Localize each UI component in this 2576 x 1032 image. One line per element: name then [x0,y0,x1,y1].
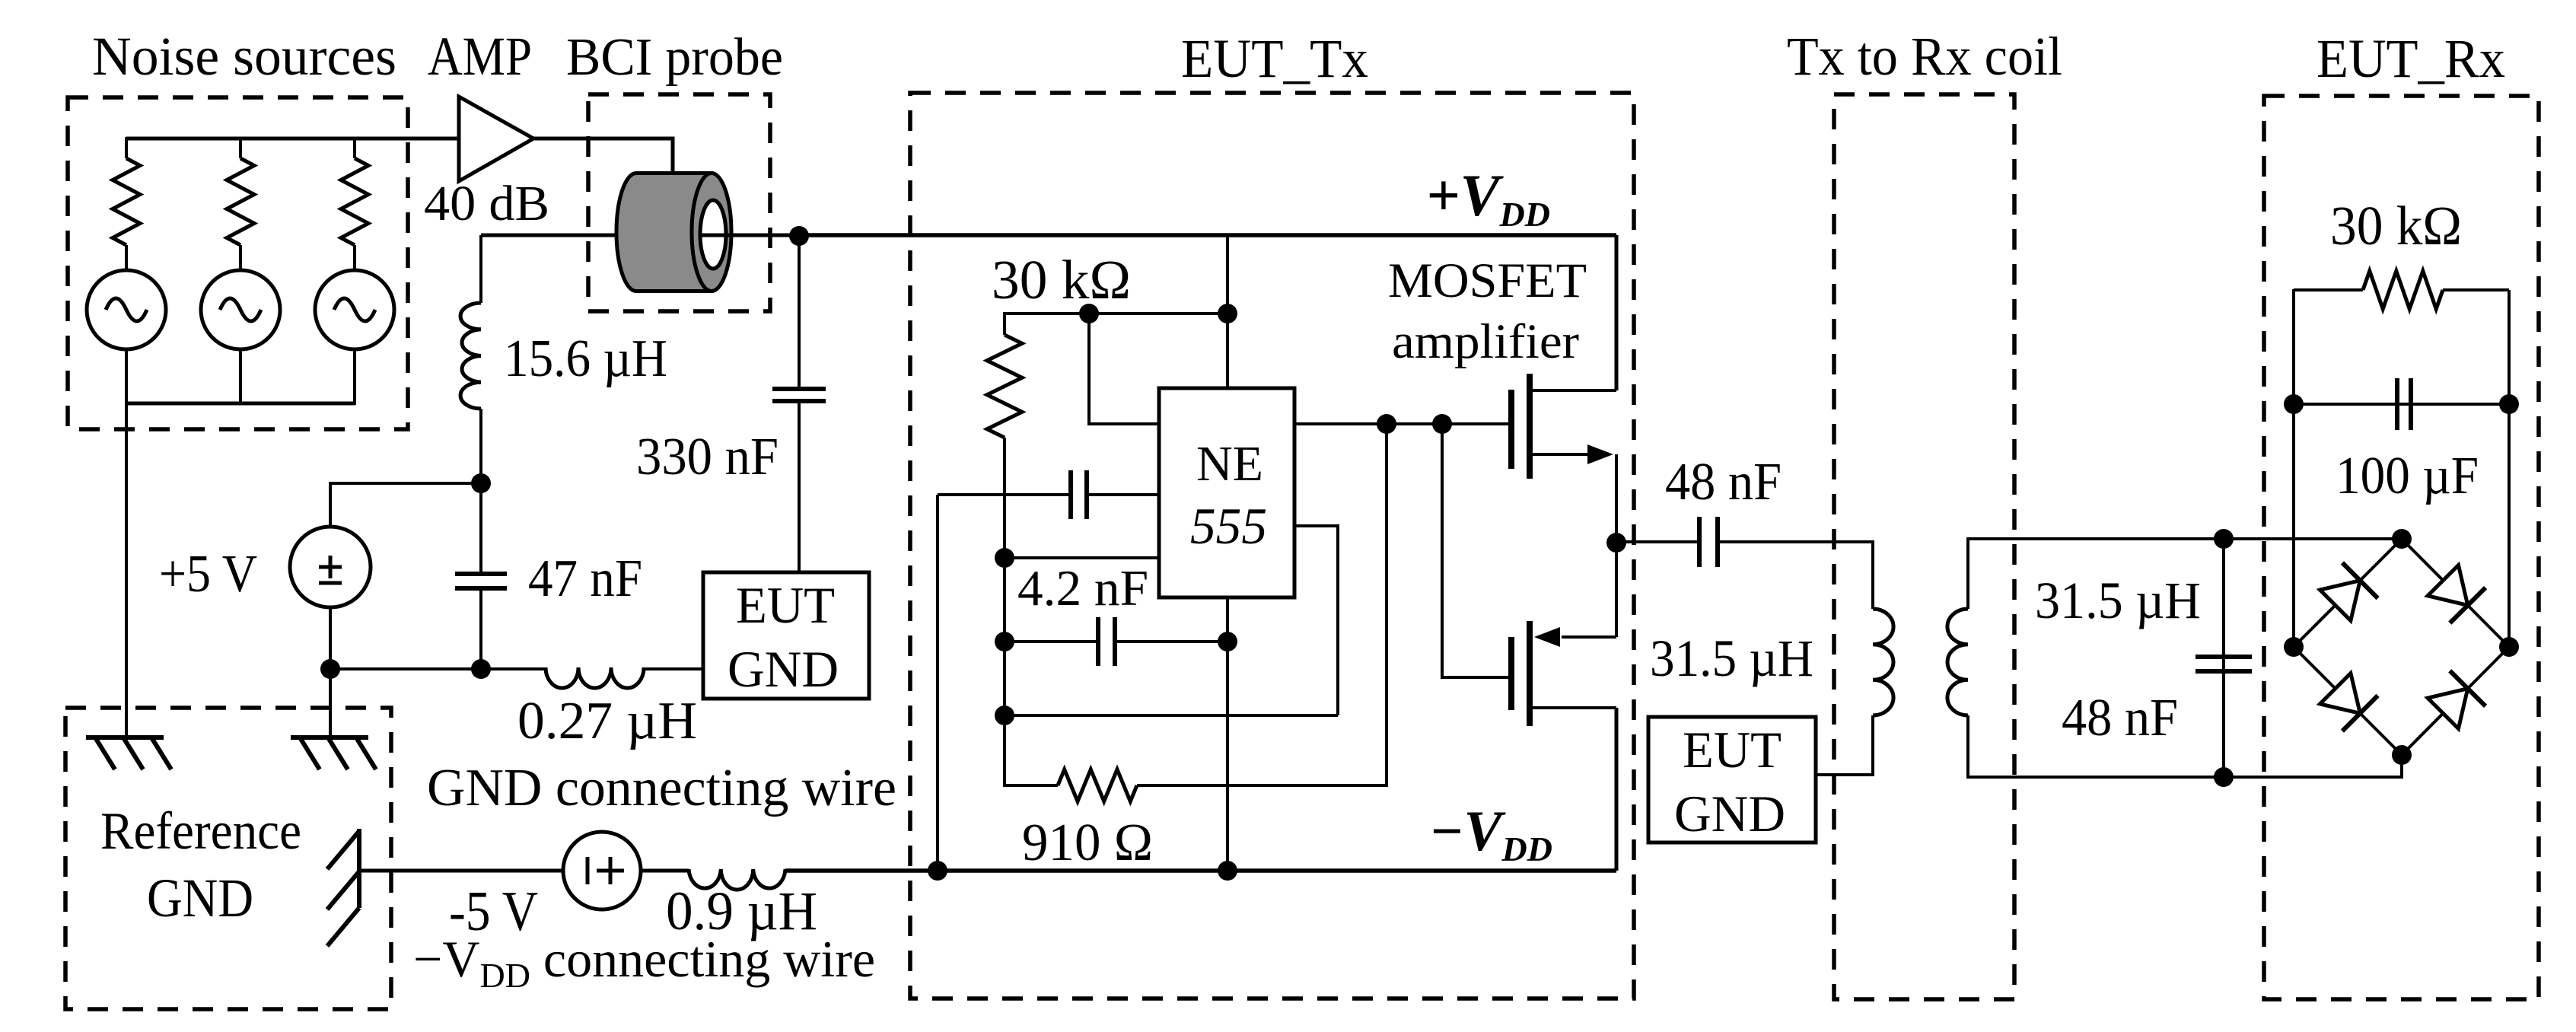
node dot bridge top [2392,529,2412,549]
capacitor 48 nF (Rx) [2195,657,2252,671]
svg-text:31.5 µH: 31.5 µH [1650,629,1813,687]
capacitor 4.2 nF [1098,617,1115,666]
resistor 30 kOhm (Tx) [987,335,1022,438]
resistor noise R3 [341,158,368,245]
node dot 4.2nF right [1218,632,1237,651]
svg-text:15.6 µH: 15.6 µH [504,330,667,388]
label 47 nF [528,549,642,608]
BCI probe toroid [616,174,731,291]
label GND (reference) [147,868,253,928]
wire E-G vertical [1003,558,1006,715]
label 40 dB [424,176,549,231]
wire 30k bottom to node E [1003,438,1006,558]
wire rail corner to Q1 drain [1615,235,1619,390]
wire resistor to source V1 [125,245,128,271]
wire -5V to 0.9uH [641,869,689,873]
dashed box: BCI probe [588,94,770,311]
svg-text:Noise sources: Noise sources [92,26,396,87]
box EUT GND (Tx side) [703,572,869,699]
svg-text:+5 V: +5 V [159,545,257,604]
wire Tx coil to EUT GND box2 [1816,715,1873,775]
diode D3 (left-bottom) [2320,674,2378,731]
node dot NE555 bottom rail [1218,861,1237,881]
label: Tx to Rx coil [1787,26,2062,87]
wire Rx coil top [1968,539,2402,609]
resistor 910 Ohm [1058,769,1137,801]
svg-text:30 kΩ: 30 kΩ [992,249,1131,311]
wire bridge edge L-B [2294,647,2402,755]
dashed box: Noise sources [68,97,408,429]
node dot Rx top [2214,529,2234,549]
wire stub branch 2 [239,137,242,158]
wire resistor to source V3 [353,245,356,271]
label -VDD connecting wire [413,930,875,995]
label Reference [100,802,301,861]
ground fence (reference GND) [327,829,359,946]
svg-text:48 nF: 48 nF [2062,689,2178,747]
svg-text:AMP: AMP [428,26,532,87]
wire 15.6uH to node B [479,409,482,483]
voltage source -5 V [563,832,641,909]
label 330 nF [636,428,779,486]
ground G2 (+5V return) [291,737,376,769]
node A junction dot [789,226,809,246]
label 30 kOhm (Tx) [992,249,1131,311]
dashed box: Reference GND [65,708,391,1009]
label 31.5 uH (Tx) [1650,629,1813,687]
wire node C to 0.27uH [481,667,546,670]
inductor 15.6 uH [460,303,481,409]
node dot bridge left [2284,637,2304,657]
wire 30k top bus [1005,314,1228,335]
wire stub branch 3 [353,137,356,158]
dashed box: EUT_Rx [2264,96,2539,999]
wire 48nF to Tx coil [1718,542,1873,609]
wire into toroid (left) [481,234,620,237]
svg-text:100 µF: 100 µF [2336,447,2479,505]
label GND connecting wire [427,759,896,817]
wire node G to feedback riser [1005,714,1338,717]
node dot 30k bus right [1218,304,1237,323]
wire Rx coil bottom [1968,715,2402,777]
wire node B to 47nF [479,483,482,574]
svg-text:GND: GND [147,868,253,928]
wire stub branch 1 [125,137,128,158]
wire NE555 right pin to riser [1294,526,1338,715]
wire 330nF to EUT GND box [798,401,801,572]
wire Q2 source to -VDD rail [1615,708,1619,871]
label 100 uF [2336,447,2479,505]
wire node D to node C [330,667,481,670]
label: BCI probe [566,28,783,87]
wire node B to +5V top [330,483,481,527]
diode D4 (bottom-right) [2428,670,2485,728]
label 4.2 nF [1017,560,1148,616]
label: EUT_Rx [2316,28,2505,89]
wire bridge edge B-R [2402,647,2509,755]
svg-text:GND: GND [1674,785,1785,842]
dashed box: EUT_Tx [910,93,1634,999]
wire 40dB corner down [479,235,482,303]
label GND (box2) [1674,785,1785,842]
svg-text:GND: GND [728,640,839,698]
diode D1 (left-top) [2320,562,2378,620]
label 30 kOhm (Rx) [2330,195,2462,256]
resistor noise R2 [227,158,254,245]
svg-text:Reference: Reference [100,802,301,861]
node dot -VDD left [928,861,947,881]
wire NE555 output to gates [1294,422,1511,425]
wire 0.27uH to EUT GND box [644,667,703,670]
IC NE555 box [1159,388,1294,597]
label NE [1196,436,1263,492]
transistor Q2 (lower MOSFET) [1511,621,1616,726]
node dot bridge right [2499,637,2519,657]
wire node D down to ground G2 [329,669,332,737]
wire -VDD rail [785,868,1616,873]
svg-text:330 nF: 330 nF [636,428,779,486]
wire 910 left leg [1005,715,1058,785]
inductor Rx coil 31.5 uH [1947,609,1968,715]
node F dot [995,632,1014,651]
svg-text:Tx to Rx coil: Tx to Rx coil [1787,26,2062,87]
wire 48nF Rx branch [2222,539,2225,777]
wire trigger drop to NE555 [1089,314,1159,424]
wire 910 right to gate node [1137,424,1387,785]
svg-text:EUT: EUT [1683,721,1782,779]
svg-text:BCI probe: BCI probe [566,28,783,87]
label 31.5 uH (Rx) [2035,572,2201,629]
wire +VDD rail [799,233,1616,237]
node B junction dot [471,473,491,493]
label 0.9 uH [666,881,817,941]
node G dot [995,706,1014,725]
inductor 0.9 uH [689,869,785,890]
wire bridge edge T-R [2402,539,2509,647]
AC source V3 [315,270,394,349]
label 910 Ohm [1022,814,1153,872]
svg-text:MOSFET: MOSFET [1388,253,1587,308]
inductor Tx coil 31.5 uH [1873,609,1893,715]
wire Rx loop right vertical [2508,290,2511,647]
wire Rx loop left vertical [2292,289,2295,647]
label -5 V [449,881,538,943]
label: AMP [428,26,532,87]
node D junction dot [320,659,340,679]
wire node A to 330nF [798,236,801,389]
wire +5V to node D [329,607,332,669]
node dot output/910 [1377,414,1396,434]
node H dot [1606,533,1626,553]
wire fence to -5V source [359,869,563,873]
voltage source +5 V [290,527,371,607]
wire source V1 to bottom bus [125,349,128,405]
ground G1 (noise sources) [86,737,171,769]
inductor 0.27 uH [546,667,644,688]
label GND (box1) [728,640,839,698]
wire bottom bus noise sources [126,402,355,406]
label -VDD [1429,800,1552,868]
diode D2 (top-right) [2428,565,2485,623]
label: Noise sources [92,26,396,87]
node dot 30k bus mid [1079,304,1099,323]
label: EUT_Tx [1181,28,1368,89]
svg-text:amplifier: amplifier [1392,314,1579,369]
label 0.27 uH [517,692,697,750]
svg-text:GND connecting wire: GND connecting wire [427,759,896,817]
dashed box: Tx to Rx coil [1834,94,2014,999]
capacitor 48 nF (Tx) [1699,517,1718,567]
wire rail down to NE555 top [1226,235,1229,388]
svg-text:48 nF: 48 nF [1665,453,1782,511]
svg-text:EUT: EUT [736,576,835,634]
label 555 [1190,497,1267,555]
label 15.6 uH [504,330,667,388]
wire source V3 to bottom bus [353,349,356,405]
label +5 V [159,545,257,604]
svg-text:47 nF: 47 nF [528,549,642,608]
wire node H to Q2 drain arrow [1615,543,1618,637]
wire DIS chain vertical [936,495,939,871]
label 48 nF (Rx) [2062,689,2178,747]
wire lower gate drop [1442,424,1511,677]
wire 4.2nF left [1005,640,1098,643]
svg-text:4.2 nF: 4.2 nF [1017,560,1148,616]
node dot output/lower gate [1432,414,1452,434]
wire bridge edge L-T [2294,539,2402,647]
svg-text:555: 555 [1190,497,1267,555]
transistor Q1 (upper MOSFET) [1511,374,1616,479]
capacitor 330 nF [772,389,826,401]
wire source V2 to bottom bus [239,349,242,405]
op-amp AMP triangle [459,97,533,181]
node E dot [995,548,1014,568]
label EUT (box2) [1683,721,1782,779]
svg-text:40 dB: 40 dB [424,176,549,231]
wire node E to NE555 [1005,556,1159,559]
svg-text:EUT_Rx: EUT_Rx [2316,28,2505,89]
label 48 nF (Tx) [1665,453,1782,511]
svg-text:31.5 µH: 31.5 µH [2035,572,2201,629]
wire C1 left [938,493,1071,496]
svg-text:0.27 µH: 0.27 µH [517,692,697,750]
wire through toroid to node A [701,234,799,237]
AC source V1 [87,270,166,349]
label amplifier [1392,314,1579,369]
AC source V2 [201,270,280,349]
svg-text:30 kΩ: 30 kΩ [2330,195,2462,256]
capacitor 47 nF [455,574,507,588]
wire NE555 bottom to rail [1226,597,1229,871]
wire 47nF to node C [479,588,482,669]
capacitor C1 upper 4.2nF chain [1071,470,1087,519]
resistor 30 kOhm (Rx) [2294,271,2509,309]
node dot Rx bottom [2214,767,2234,787]
wire Q1 source to node H [1615,454,1618,543]
node C junction dot [471,659,491,679]
wire resistor to source V2 [239,245,242,271]
label EUT (box1) [736,576,835,634]
svg-text:EUT_Tx: EUT_Tx [1181,28,1368,89]
box EUT GND (coil side) [1648,717,1816,842]
wire node H to 48nF [1616,540,1699,543]
wire noise box down to reference ground [125,403,128,737]
node dot 100uF right [2499,394,2519,414]
node dot 100uF left [2284,394,2304,414]
wire top bus noise sources [126,137,459,141]
wire AMP output to BCI probe [533,139,673,175]
label MOSFET [1388,253,1587,308]
svg-text:NE: NE [1196,436,1263,492]
wire C1 right [1087,493,1159,496]
svg-text:910 Ω: 910 Ω [1022,814,1153,872]
capacitor 100 uF [2397,378,2411,430]
node dot bridge bottom [2392,745,2412,765]
resistor noise R1 [113,158,140,245]
wire 4.2nF right [1115,640,1228,643]
label +VDD [1426,162,1550,234]
wire 100uF bus [2294,403,2509,406]
